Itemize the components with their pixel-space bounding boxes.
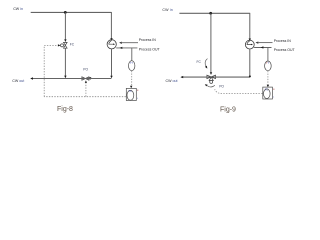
- svg-text:CW out: CW out: [166, 79, 178, 83]
- wire Process IN (fig9): [257, 42, 272, 44]
- svg-text:R: R: [137, 90, 139, 92]
- heat exchanger internal coil+arrow (fig9): [247, 41, 252, 45]
- junction dot (fig9): [209, 12, 212, 15]
- valve PO (horizontal bowtie): [82, 77, 89, 80]
- svg-text:CW in: CW in: [13, 7, 23, 11]
- svg-text:FC: FC: [197, 60, 202, 64]
- dashed controller output to valve (fig9): [215, 89, 263, 93]
- heat exchanger U2 circle: [245, 40, 254, 49]
- 3-way valve actuator circle: [210, 80, 213, 83]
- controller box (fig9): [263, 87, 273, 99]
- arrowhead CW out: [30, 77, 33, 79]
- junction dot at CW in tee: [64, 11, 67, 14]
- arrowhead into exchanger (fig9): [249, 39, 251, 42]
- wire CW in to exchanger: [110, 12, 112, 38]
- arrowhead FC action: [205, 66, 207, 69]
- dashed branch to PO valve: [85, 83, 87, 97]
- wire Process OUT (fig9): [254, 47, 271, 49]
- svg-text:PO: PO: [219, 85, 224, 89]
- arrowhead into controller (fig9): [267, 85, 269, 88]
- arrowhead PO action: [205, 84, 208, 86]
- arrowhead exchanger drop onto CW out: [110, 76, 112, 79]
- arrowhead into exchanger top: [110, 38, 112, 41]
- svg-text:PO: PO: [83, 68, 88, 72]
- svg-text:TC: TC: [129, 90, 132, 93]
- svg-text:Process IN: Process IN: [274, 39, 292, 43]
- dashed controller output riser (left): [43, 45, 45, 96]
- arrowhead control signal FC: [58, 44, 61, 46]
- arrowhead Process OUT flow (fig9): [261, 46, 264, 48]
- controller bubble (fig9): [264, 89, 271, 99]
- svg-text:CW out: CW out: [12, 79, 24, 83]
- svg-text:Process IN: Process IN: [139, 38, 157, 42]
- arrowhead Process IN (fig9): [256, 42, 259, 44]
- wire exchanger bottom to CW out: [111, 49, 113, 76]
- wire CW out (fig9): [181, 76, 250, 78]
- arrowhead into PO valve: [85, 80, 87, 83]
- wire tap to TT (fig9): [267, 48, 269, 62]
- arrowhead CW out (fig9): [180, 76, 183, 78]
- dashed signal TT to controller: [131, 71, 133, 86]
- valve FC (vertical bowtie): [64, 42, 68, 48]
- arrowhead onto CW out line: [64, 76, 66, 79]
- wire drop to 3-way valve: [210, 13, 212, 72]
- junction dot right of PO valve: [89, 77, 91, 79]
- svg-text:CW in: CW in: [162, 8, 173, 12]
- svg-text:FC: FC: [70, 42, 75, 46]
- wire FC valve to CW out: [64, 48, 66, 76]
- wire exchanger to CW out corner (fig9): [249, 49, 251, 77]
- heat exchanger internal coil+arrow: [109, 40, 114, 44]
- valve 3-way (FC/PO): [207, 75, 216, 81]
- controller bubble: [127, 90, 134, 100]
- svg-text:L: L: [137, 98, 139, 100]
- instrument TT bubble (fig9): [265, 61, 272, 71]
- FC valve actuator circle: [61, 44, 64, 47]
- dashed signal TT to controller (fig9): [267, 71, 269, 85]
- curved action arrow PO: [207, 85, 215, 87]
- arrowhead into FC valve: [64, 39, 66, 42]
- corner dot (fig9): [249, 75, 251, 77]
- wire Process IN: [121, 42, 138, 44]
- svg-text:Process OUT: Process OUT: [139, 48, 161, 52]
- heat exchanger U1 circle: [107, 40, 116, 49]
- svg-text:R: R: [273, 89, 275, 91]
- wire tap to temperature transmitter: [131, 48, 133, 61]
- arrowhead Process OUT (flow right): [120, 47, 123, 49]
- svg-text:Fig-8: Fig-8: [57, 106, 73, 113]
- wire CW in horizontal (fig9): [179, 12, 249, 14]
- svg-text:Fig-9: Fig-9: [220, 106, 236, 113]
- wire exchanger feed (fig9): [249, 13, 251, 39]
- wire bypass drop (to FC valve): [64, 12, 66, 39]
- curved action arrow FC: [205, 59, 207, 67]
- arrowhead into 3-way valve: [210, 72, 212, 75]
- controller box (shared display): [126, 88, 136, 100]
- arrowhead Process IN into exchanger: [119, 42, 122, 44]
- dashed control signal into FC valve: [44, 44, 58, 46]
- wire CW out: [31, 78, 111, 80]
- wire CW in horizontal: [31, 11, 112, 13]
- svg-text:TC: TC: [265, 89, 268, 92]
- dashed controller output bus (bottom): [44, 96, 126, 98]
- arrowhead into controller box: [130, 86, 132, 89]
- instrument TT bubble: [129, 61, 135, 71]
- svg-text:Process OUT: Process OUT: [274, 48, 296, 52]
- svg-text:L: L: [273, 96, 275, 98]
- wire Process OUT: [116, 47, 137, 49]
